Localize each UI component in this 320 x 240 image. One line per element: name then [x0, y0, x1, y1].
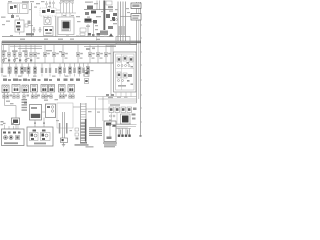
module M5 [106, 14, 110, 18]
wire main top bus y9.7 [84, 9, 113, 11]
connector pair P14 [82, 63, 84, 77]
wire drop x16 to box [15, 106, 17, 119]
wire right trunk 3 [140, 2, 143, 137]
module M6 [108, 26, 113, 29]
label beside drop [28, 21, 31, 25]
harness rail left [80, 103, 82, 142]
wire cross y128 [116, 127, 128, 129]
arrow mark wire B2 [43, 123, 45, 124]
label mid fuse text [46, 50, 62, 52]
label pair row 1 [10, 67, 12, 72]
connector pair P9 [59, 63, 62, 77]
harness rungs upper [81, 104, 87, 120]
relay K10 contact [16, 26, 21, 28]
terminal ring [116, 19, 118, 21]
label boxes row [110, 104, 120, 105]
cluster box A mark row [3, 132, 21, 134]
connector foot 3 [13, 93, 16, 99]
ground G101 [33, 27, 36, 32]
wire trunk A4 [125, 2, 127, 42]
wire left drop x4.5 [4, 93, 6, 106]
wire to callout [120, 16, 131, 18]
label right marks [108, 97, 113, 98]
connector bulb B2 [63, 1, 65, 13]
wire v x93.5 drop [93, 24, 95, 37]
wire legs into box A [5, 125, 19, 129]
ECU outer box [114, 52, 137, 92]
label tiny 1 [85, 2, 91, 3]
relay box top right [106, 1, 112, 5]
harness foot [80, 142, 87, 144]
fuse F20 [10, 6, 13, 9]
wire between B1 B2 [42, 111, 46, 113]
wire long drop x31 [31, 3, 33, 37]
switch mark S25 [30, 59, 32, 61]
fuse FM6 [88, 44, 94, 63]
lamp box L2 [12, 85, 20, 93]
connector foot 5 [23, 93, 26, 99]
connector block C20 [44, 27, 54, 36]
label tiny 2 [96, 16, 101, 17]
label fuse row 1 [2, 50, 7, 52]
ground G110 [62, 143, 65, 147]
cluster box C outline [27, 127, 53, 146]
module M1 [87, 6, 93, 10]
wire drop center1 [61, 13, 63, 17]
ECU relay 2 [123, 56, 127, 61]
connector top right b [106, 94, 114, 96]
wire right trunk 2 [138, 2, 140, 99]
label C20 text [46, 33, 52, 35]
connector foot 10 [50, 93, 53, 99]
cluster box A gauge 2 [9, 136, 13, 140]
connector pair P2 [8, 63, 11, 77]
relay K10 box [15, 20, 24, 32]
connector foot 4 [17, 93, 20, 99]
wire sub bus left 1 [10, 45, 42, 47]
ignitor box [12, 118, 20, 125]
fuse F4 [19, 44, 22, 63]
wire ecu drops [116, 92, 131, 97]
note line a [75, 144, 89, 145]
label compbox 3 [23, 79, 27, 81]
note line c [103, 142, 117, 143]
label pair row 4 [55, 68, 57, 73]
ECU module blob [128, 74, 132, 77]
junction block J/B [8, 3, 28, 14]
fuse FM5 [76, 44, 82, 63]
connector foot 8 [42, 93, 45, 99]
ignition switch box [40, 8, 56, 16]
connector foot 2 [6, 93, 9, 99]
triangle mark [109, 33, 113, 36]
label columns rot [120, 130, 128, 135]
wire main bus 1 [2, 40, 141, 42]
label compbox 8 [76, 79, 80, 81]
wire step top [73, 106, 81, 108]
label feet 2 [27, 95, 30, 97]
motor box M12 [49, 85, 55, 93]
wire below B2 [43, 118, 45, 128]
wire drop x111 [110, 44, 112, 96]
label compbox 4 [32, 79, 37, 81]
fuse F5 [25, 44, 28, 63]
label dashes right [106, 46, 116, 47]
wire bus y13 [58, 12, 76, 14]
connector foot 12 [62, 93, 65, 99]
control box B1 dark text [31, 114, 41, 118]
label stack left [22, 99, 28, 111]
switch mark S23 [8, 59, 10, 61]
callout box HOT2 [131, 14, 141, 21]
label br small [109, 120, 112, 121]
ECU inner box [116, 54, 135, 90]
motor box M13 [59, 85, 66, 93]
cluster box A label [4, 142, 18, 144]
harness rungs lower [81, 119, 87, 142]
note line d [104, 144, 117, 145]
wire sw out right 2 [56, 12, 58, 14]
label J/B text [22, 1, 29, 2]
wire relay bottom lead [19, 32, 21, 35]
module mark r2 [132, 118, 136, 120]
terminal ring b1 [110, 115, 116, 117]
body box faint [57, 103, 73, 128]
label mid marks [86, 48, 95, 51]
connector pair P4 [21, 63, 24, 77]
fuel pump lower mark [107, 137, 112, 140]
relay box BR3 [121, 107, 126, 113]
label rotated w2 [66, 123, 68, 134]
label compbox 6 [57, 79, 60, 81]
wire nested h2 [98, 98, 137, 100]
ECU small mark 3 [127, 80, 130, 82]
connector pair P11 [69, 63, 72, 77]
wire heavy bar x103.5 [103, 1, 105, 31]
ECU relay 5 [123, 73, 127, 78]
wire jb internal 2 [19, 4, 21, 13]
wire right trunk 1 [136, 2, 138, 103]
wire below ignitor [15, 125, 17, 130]
wire v x95.5 b [95, 109, 97, 127]
wire br v1 [111, 113, 113, 125]
ECU relay 3 [129, 57, 133, 62]
wire bus y36.6 [2, 36, 114, 38]
module mark r1 [132, 114, 136, 116]
switch contact S1 [42, 10, 46, 13]
wire v x88 drop [87, 24, 89, 37]
ECU relay 4 [117, 72, 121, 78]
connector foot 1 [3, 93, 6, 99]
connector pair P12 [73, 63, 75, 77]
wire v x95.5 [95, 97, 97, 110]
wire bus left end [1, 41, 3, 63]
connector pair P10 [63, 63, 65, 77]
connector C30 [88, 33, 91, 36]
relay box BR4 [127, 107, 132, 113]
wire column C1 [118, 129, 120, 137]
wire sw lead 3 [53, 4, 55, 8]
switch contact S3 [51, 10, 55, 13]
wire relay right lead [28, 25, 33, 27]
lamp box L1 [2, 85, 9, 93]
connector pair P5 [27, 63, 30, 77]
label compbox 1 [3, 79, 7, 81]
connector pair P15 [87, 63, 90, 77]
fuse F1 [2, 44, 5, 63]
sensor S11 dark [112, 17, 115, 21]
junction box right top [116, 37, 130, 45]
wire h y105.5 [5, 105, 17, 107]
terminal t2 [50, 29, 53, 31]
ECU relay 1 [117, 57, 121, 62]
label pair row 3 [45, 68, 47, 73]
connector ring T1 [46, 1, 48, 5]
wire main bus 3 [2, 43, 137, 45]
distributor inner box [62, 21, 71, 32]
wire bus y63 [2, 62, 114, 64]
connector ring T2 [49, 1, 51, 4]
wire nested return 1 [109, 124, 137, 126]
label HOT2 line1 [132, 15, 139, 16]
wire sub bus right [84, 45, 113, 47]
distributor rotor dark [63, 22, 70, 29]
ECU small mark 4 [131, 84, 134, 85]
label feet 3 [38, 95, 41, 97]
fuse F2 [8, 44, 11, 63]
wire v x99.5 [99, 1, 101, 10]
wire drop center2 [65, 13, 67, 17]
switch circle S22 [25, 59, 27, 61]
wire sub bus left 2 [18, 48, 42, 50]
sensor box right edge [85, 71, 90, 77]
magneto circle [45, 19, 49, 23]
wire v x103 b [102, 109, 104, 121]
wire jb drop [12, 14, 14, 16]
wire h y109 [86, 108, 112, 110]
wire trunk A3 [122, 2, 124, 42]
ground G102 [39, 27, 42, 32]
condenser box [80, 28, 86, 32]
cluster box C label [34, 143, 46, 145]
coil box [121, 114, 131, 124]
wire column C3 [125, 129, 127, 137]
connector bulb B1 [60, 2, 62, 13]
switch contact S2 [47, 9, 50, 12]
wire main bus 2 [2, 42, 141, 44]
label pair row 2 [24, 67, 26, 72]
relay K10 pins [17, 29, 20, 31]
ECU small mark 1 [127, 62, 130, 64]
label compbox 2 [13, 79, 18, 81]
connector foot 14 [72, 93, 75, 99]
connector pair P7 [41, 63, 43, 77]
connector C32 [97, 33, 101, 36]
label distributor [62, 29, 69, 31]
wire nested h1 [86, 96, 137, 98]
fuse F21 [14, 5, 17, 8]
wire below B1 [34, 120, 36, 127]
label legs A [3, 123, 14, 124]
module mark r0 [133, 108, 137, 111]
connector foot 11 [59, 93, 62, 99]
wire relay top lead [19, 18, 21, 21]
ECU partition v [121, 54, 123, 90]
connector pair P8 [49, 63, 51, 77]
fuel sender box [61, 138, 68, 143]
wire jb internal 1 [17, 4, 19, 13]
ECU terminals row 2 [118, 80, 124, 82]
sensor cluster S10 [113, 13, 117, 16]
harness side boxes [75, 128, 79, 140]
wire sw lead 2 [49, 4, 51, 8]
connector C31 [92, 34, 95, 36]
sensor box right edge 2 [85, 79, 89, 84]
label coil text [60, 0, 74, 1]
switch circle S20 [2, 59, 4, 61]
connector foot 6 [31, 93, 34, 99]
wire v x55.5 [55, 16, 57, 37]
motor box M11 [41, 85, 48, 93]
wire sw down 1 [43, 16, 45, 18]
wire sw lead 1 [46, 5, 48, 8]
wire v x96.5 short [96, 37, 98, 41]
wire cross y124 [116, 123, 131, 125]
fuse F6 [30, 44, 33, 63]
connector pair P3 [15, 63, 18, 77]
label compbox 5 [44, 79, 48, 81]
label above bus [100, 34, 107, 36]
wire sw down 2 [47, 16, 49, 18]
noise filter box [80, 33, 85, 36]
wire v x97 [96, 1, 98, 10]
note text block [89, 127, 102, 136]
fuse FM4 [61, 44, 67, 63]
wire trunk A2 [120, 2, 122, 42]
wire h y21 [84, 20, 93, 22]
wire center pair 2 [64, 112, 66, 138]
connector pair P6 [34, 63, 37, 77]
label feet 5 [65, 95, 68, 97]
note line e [104, 146, 115, 147]
ECU partition h [116, 68, 135, 70]
label compbox 7 [64, 79, 68, 81]
junction dark mark [113, 125, 116, 127]
module M3 [85, 12, 89, 15]
harness rail right [85, 103, 87, 142]
fuel pump divider [109, 126, 111, 139]
module M2 dark [91, 11, 96, 14]
wire sw out right 1 [56, 9, 60, 11]
connector pair P13 [78, 63, 81, 77]
relay box BR1 [109, 107, 114, 113]
control box B2 [46, 104, 56, 118]
wire trunk A1 [117, 2, 119, 42]
control box B2 ring 2 [51, 110, 53, 112]
connector bulb B5 [72, 2, 74, 13]
switch circle S21 [13, 59, 15, 61]
wire column C2 [121, 129, 123, 137]
label feet 4 [48, 95, 51, 97]
cluster box C left group [30, 133, 39, 141]
wire drop x113 [112, 44, 114, 63]
module M4 [93, 20, 97, 24]
control box B1 [30, 105, 42, 121]
wire nested top h1 [108, 100, 137, 102]
motor box M10 [31, 85, 38, 93]
ECU label [118, 85, 126, 87]
fuse FM1 [33, 44, 39, 63]
resistor block dark [85, 19, 92, 23]
wire br v2 [116, 113, 118, 125]
wire center pair 1 [62, 112, 64, 138]
relay K10 coil [17, 22, 20, 24]
wire drop center3 [69, 13, 71, 17]
lamp box L3 [22, 85, 29, 93]
fuse FM3 [52, 44, 58, 63]
callout box HOT1 [131, 3, 141, 9]
cluster box C top marks [33, 130, 46, 132]
fuse FM8 [104, 44, 110, 63]
wire nested top h2 [108, 102, 137, 104]
coil core dark [122, 116, 129, 123]
label feet 1 [10, 95, 13, 97]
label HOT2 line2 [132, 17, 138, 18]
wire nested return 3 [116, 128, 131, 130]
relay micro [23, 5, 27, 9]
fuse FM2 [43, 44, 49, 63]
cluster box A relay [16, 136, 20, 140]
wire nested return 2 [112, 126, 136, 128]
label trunk wire colors [119, 26, 125, 35]
connector bulb B4 [69, 1, 71, 13]
arrow mark wire B1 [34, 123, 36, 124]
control box B1 label [31, 107, 37, 109]
magneto box [44, 18, 51, 25]
cluster box A outline [2, 129, 25, 146]
fuse FM7 [96, 44, 102, 63]
connector ring T3 [53, 1, 55, 4]
wire column C4 [128, 129, 130, 137]
distributor box [58, 17, 74, 35]
connector foot 7 [35, 93, 38, 99]
wire v x57 [56, 16, 58, 37]
ECU terminals row [118, 65, 131, 67]
wire v x103 [102, 97, 104, 110]
cluster box C right group [41, 133, 51, 141]
label fuse row 3 [23, 50, 28, 52]
connector bulb B3 [66, 2, 68, 13]
connector foot 9 [45, 93, 48, 99]
label scattered wire text [2, 1, 130, 131]
fuel pump box [104, 121, 116, 142]
connector C12 [25, 24, 28, 27]
fuel pump dark mark [106, 123, 111, 126]
diode symbol D1 [11, 15, 14, 18]
terminal t1 [45, 29, 48, 31]
label top right [108, 6, 113, 8]
label left corner marks [1, 121, 4, 125]
cluster box A gauge 1 [4, 136, 8, 140]
connector foot 13 [69, 93, 72, 99]
label text block tr [100, 31, 108, 36]
ECU small mark 2 [131, 66, 134, 67]
control box B2 ring 1 [51, 106, 53, 108]
label rotated w1 [59, 123, 61, 134]
label HOT1 text [132, 4, 139, 7]
fuse F3 [13, 44, 16, 63]
label fuse row 2 [12, 50, 18, 52]
